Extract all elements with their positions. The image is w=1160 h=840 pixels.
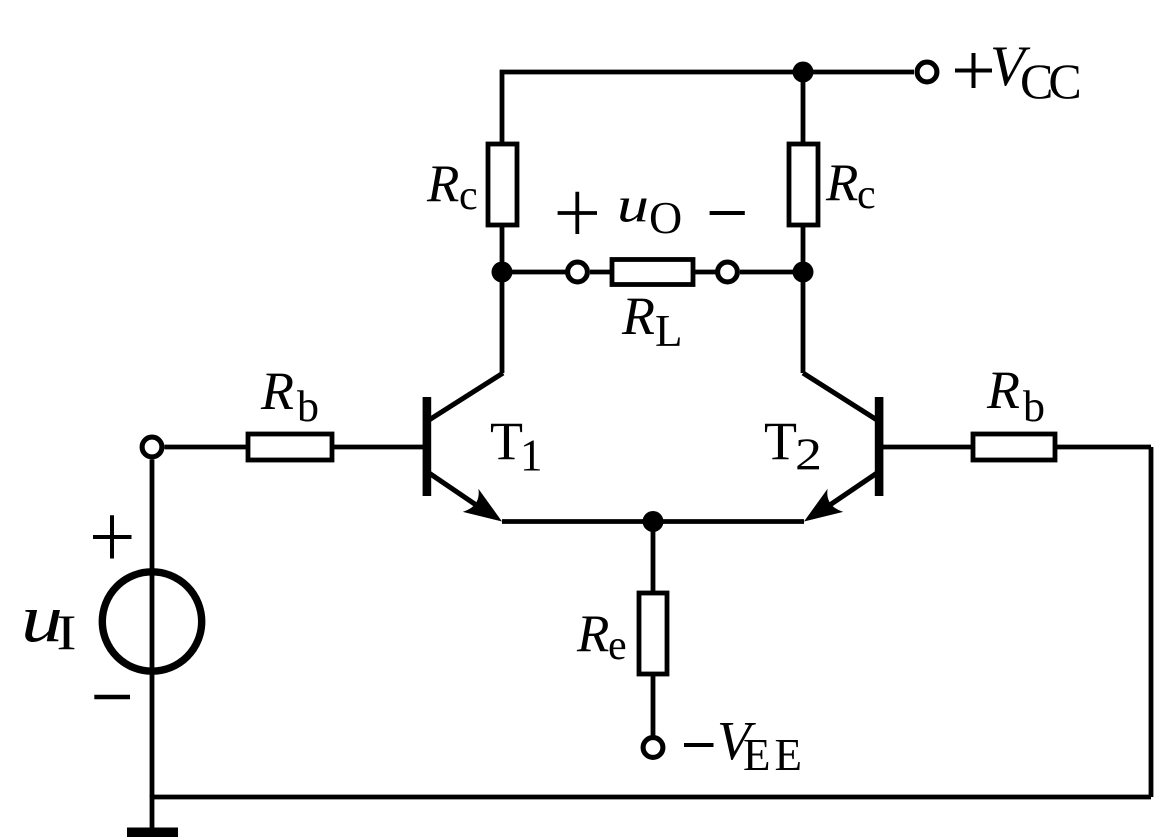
transistor T1 collector diagonal — [429, 373, 503, 420]
label uO plus sign — [558, 192, 597, 234]
svg-text:T: T — [490, 411, 523, 471]
resistor Rb left body — [248, 434, 332, 460]
wire right rail — [1149, 447, 1154, 797]
wire VCC node drop to right Rc — [801, 72, 806, 146]
svg-text:T: T — [764, 411, 797, 471]
transistor T2 base bar — [875, 397, 884, 496]
svg-text:u: u — [617, 177, 649, 233]
wire right Rb to right rail — [1055, 445, 1151, 450]
ground — [150, 795, 155, 830]
wire input source vertical through uI — [150, 460, 155, 798]
wire output node left to terminal — [502, 270, 566, 275]
wire T2 collector vertical — [801, 272, 806, 373]
svg-text:CC: CC — [1020, 53, 1079, 109]
svg-text:e: e — [608, 623, 627, 669]
wire Re bottom to VEE terminal — [651, 674, 656, 736]
transistor T2 emitter diagonal — [824, 473, 877, 509]
svg-text:R: R — [621, 286, 655, 346]
svg-text:EE: EE — [743, 730, 806, 780]
svg-text:R: R — [576, 605, 609, 663]
terminal output right open circle — [718, 262, 738, 282]
resistor RL body — [612, 260, 693, 285]
label source minus sign — [94, 695, 130, 700]
resistor Rc left body — [488, 144, 517, 225]
source uI circle — [102, 572, 201, 671]
transistor T1 base bar — [423, 397, 432, 496]
label uO minus sign — [710, 211, 745, 215]
svg-text:c: c — [459, 173, 478, 219]
svg-text:c: c — [857, 172, 876, 218]
svg-text:2: 2 — [795, 430, 822, 480]
transistor T1 emitter arrowhead — [463, 489, 502, 522]
wire left output terminal to RL — [590, 270, 612, 275]
label +VCC plus sign — [955, 53, 992, 88]
svg-text:b: b — [1023, 382, 1045, 431]
wire left Rc bottom to output node — [500, 223, 505, 272]
svg-text:1: 1 — [520, 431, 543, 481]
wire T1 collector vertical — [500, 272, 505, 373]
svg-text:R: R — [825, 154, 858, 212]
svg-text:b: b — [297, 382, 319, 431]
wire top rail from left Rc up and across to VCC terminal — [502, 72, 914, 146]
wire bottom rail — [152, 795, 1151, 800]
wire right output terminal to right node — [740, 270, 803, 275]
wire left Rb to T1 base — [332, 445, 423, 450]
terminal +VCC open circle — [917, 62, 937, 82]
wire RL to right output terminal — [693, 270, 716, 275]
svg-text:R: R — [986, 360, 1020, 420]
node dot right collector output — [793, 262, 814, 283]
wire right Rc bottom to output node — [801, 223, 806, 272]
transistor T2 collector diagonal — [803, 373, 877, 420]
terminal input open circle — [142, 437, 162, 457]
transistor T2 emitter arrowhead — [804, 489, 843, 522]
label source plus sign — [93, 515, 132, 558]
svg-text:R: R — [260, 361, 294, 421]
terminal -VEE open circle — [643, 738, 663, 758]
resistor Rc right body — [789, 144, 818, 225]
node dot at VCC rail — [793, 62, 814, 83]
wire emitter bus — [502, 519, 804, 524]
wire emitter node down to Re — [651, 522, 656, 596]
resistor Rb right body — [973, 434, 1055, 460]
svg-text:L: L — [655, 306, 683, 356]
svg-text:O: O — [649, 192, 682, 243]
wire input terminal to left Rb — [165, 445, 249, 450]
resistor Re body — [639, 593, 667, 674]
node dot left collector output — [492, 262, 513, 283]
svg-text:R: R — [426, 155, 459, 213]
label -VEE minus sign — [684, 743, 714, 747]
transistor T1 emitter diagonal — [429, 473, 482, 509]
svg-text:I: I — [57, 604, 77, 660]
node dot emitter junction — [643, 511, 664, 532]
terminal output left open circle — [568, 262, 588, 282]
wire T2 base to right Rb — [883, 445, 973, 450]
